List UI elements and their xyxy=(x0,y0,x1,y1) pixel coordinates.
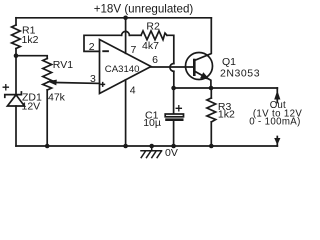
svg-text:Q1: Q1 xyxy=(222,56,236,68)
transistor Q1 collector xyxy=(194,18,211,61)
svg-text:4k7: 4k7 xyxy=(142,40,159,52)
ground chassis symbol xyxy=(141,146,162,158)
wire R1 node to RV1 top xyxy=(16,56,47,59)
svg-text:3: 3 xyxy=(90,73,96,85)
resistor R3 xyxy=(210,88,212,98)
wire pin3 input with wiper arrow xyxy=(57,82,100,85)
svg-text:6: 6 xyxy=(152,54,158,66)
wire RV1 bottom to rail xyxy=(46,90,48,146)
potentiometer RV1 xyxy=(43,59,52,91)
wire left vertical top xyxy=(15,18,17,25)
wire bottom 0V rail xyxy=(16,145,277,147)
label plus input xyxy=(100,82,105,87)
wire pin2 feedback box xyxy=(84,35,122,51)
wire hop over pin6 line xyxy=(170,64,174,72)
svg-text:12V: 12V xyxy=(22,100,41,112)
label minus input xyxy=(102,50,109,52)
wire top +18V rail xyxy=(16,17,211,19)
wire output node line xyxy=(174,87,278,89)
node RV1/rail xyxy=(45,144,50,149)
wire R2 right corner down xyxy=(167,35,174,63)
svg-text:7: 7 xyxy=(131,44,137,56)
wire hop over pin7 vertical xyxy=(122,31,130,35)
node feedback/C1/output xyxy=(171,86,176,91)
transistor Q1 circle xyxy=(186,53,213,80)
zener diode ZD1 xyxy=(3,85,24,146)
svg-text:4: 4 xyxy=(130,84,136,96)
svg-text:10µ: 10µ xyxy=(143,117,161,129)
wire out+ stub arrow xyxy=(276,88,278,103)
wire feedback down to output node xyxy=(173,71,175,88)
svg-text:0V: 0V xyxy=(165,147,178,159)
svg-text:RV1: RV1 xyxy=(53,59,73,71)
svg-text:R2: R2 xyxy=(146,20,160,32)
svg-text:2: 2 xyxy=(89,41,95,53)
capacitor C1 xyxy=(165,88,183,146)
wire pin4 vertical to 0V xyxy=(125,80,127,146)
node rail junction xyxy=(123,15,128,20)
resistor R2 xyxy=(141,31,167,40)
svg-text:1k2: 1k2 xyxy=(22,34,39,46)
svg-text:2N3053: 2N3053 xyxy=(220,68,260,80)
node ground/rail xyxy=(149,144,154,149)
transistor Q1 base bar xyxy=(193,60,196,75)
svg-text:CA3140: CA3140 xyxy=(105,64,140,75)
wire pin7 supply vertical xyxy=(125,18,127,54)
node emitter/R3/out xyxy=(209,86,214,91)
svg-text:47k: 47k xyxy=(48,92,66,104)
wire pin6 output to base xyxy=(151,66,194,68)
wire hop to R2 xyxy=(129,34,141,36)
node R3/rail xyxy=(209,144,214,149)
op-amp U1 CA3140 triangle xyxy=(100,40,152,94)
node pin4/rail xyxy=(123,144,128,149)
svg-text:0 - 100mA): 0 - 100mA) xyxy=(249,117,300,128)
svg-text:1k2: 1k2 xyxy=(218,109,235,121)
node R1/RV1 junction xyxy=(14,53,19,58)
svg-text:+18V (unregulated): +18V (unregulated) xyxy=(94,2,194,15)
node C1/rail xyxy=(171,144,176,149)
transistor Q1 emitter xyxy=(194,71,211,88)
resistor R1 xyxy=(12,25,21,49)
wire out- stub arrow xyxy=(276,137,278,147)
wire left vertical mid xyxy=(15,49,17,95)
